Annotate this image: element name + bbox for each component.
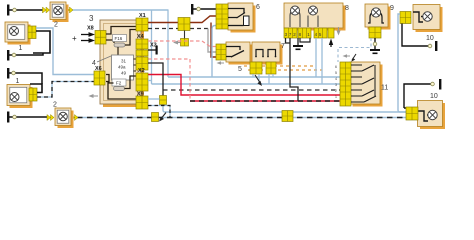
wire: blue dashed from lamp 9 connector to switch 11	[338, 38, 371, 62]
svg-text:9: 9	[390, 5, 394, 12]
ground for lamp 1 top	[7, 50, 43, 61]
svg-text:8: 8	[345, 5, 349, 12]
fuse F2	[112, 79, 126, 91]
svg-text:49a: 49a	[118, 65, 126, 70]
small connector on bottom bus with arrow	[152, 113, 167, 122]
label 3	[89, 14, 94, 23]
svg-text:2: 2	[53, 102, 57, 109]
wire: orange-white dashed y=70	[248, 69, 322, 71]
wire: cluster pin to ground	[293, 38, 303, 50]
wire: blue stubs from switch 7 connectors to buses	[253, 74, 273, 84]
wire: blue bus y=84 to switch 11	[152, 83, 341, 85]
connector pads of lamp 2 bottom	[47, 115, 78, 121]
svg-text:F2: F2	[116, 81, 122, 86]
ground for lamp 2 top-left	[7, 5, 44, 16]
wire: block internal X8 row1 to X1 row1	[106, 27, 136, 35]
wire: F2 to X2 row1	[125, 76, 137, 89]
wire: pink-red dashed from X4 row2 to switch 5	[148, 41, 216, 47]
mounting block 3	[100, 20, 144, 107]
label 10 (top)	[426, 35, 434, 42]
wire: lamp 10 top ground	[402, 24, 437, 52]
label 2 (bottom)	[53, 102, 57, 109]
connector X1	[136, 18, 148, 31]
wire: blue from lamp 10 top down right side	[398, 14, 406, 112]
connector of lamp 1 top	[28, 26, 36, 39]
connector X6	[94, 71, 105, 85]
wire: black dashed bus y=90	[163, 89, 340, 91]
gray arrow down at cluster right	[337, 27, 341, 36]
connector of lamp 1 bottom	[29, 88, 37, 101]
svg-text:X3: X3	[150, 43, 157, 49]
switch block 11	[340, 62, 383, 107]
stub and small connector under connector 178	[181, 31, 189, 47]
black arrow up into cluster pin	[329, 39, 333, 48]
label 1 (bottom)	[16, 78, 20, 85]
svg-text:X1: X1	[139, 13, 146, 19]
connector of lamp 10 top	[400, 12, 411, 24]
svg-text:31: 31	[121, 59, 127, 64]
svg-text:7: 7	[281, 43, 285, 50]
wire: F16 to X1 row2	[125, 30, 136, 46]
wire: X9 row2 dashed to bottom bus	[148, 106, 170, 118]
connectors below switch 7	[250, 62, 276, 74]
wire: block internal X6 row1 to F2	[106, 75, 114, 84]
rear lamp 10 bottom	[418, 101, 446, 130]
cluster pin row	[284, 28, 334, 38]
connector X3 and its ground	[136, 43, 158, 57]
lamp 1 (front turn signal, top left)	[5, 22, 31, 45]
hazard switch 6	[216, 3, 256, 33]
svg-text:11: 11	[381, 85, 388, 92]
wire: blue stub X2 row2 to riser	[148, 80, 152, 82]
svg-text:10: 10	[430, 93, 438, 100]
turn signal switch 7	[252, 42, 283, 65]
wire: blue riser x=168 down to blue bus y=77	[167, 10, 169, 77]
wire: blue taps from cluster pins 4,5 to buses	[316, 38, 322, 84]
svg-text:2: 2	[335, 89, 337, 93]
wire: blue bus y=112 from X9 chain to right rear lamp	[163, 104, 406, 112]
ground for lamp 2 bottom-left	[7, 112, 48, 123]
svg-text:1: 1	[16, 78, 20, 85]
svg-text:3: 3	[89, 14, 94, 23]
svg-text:4: 4	[335, 77, 337, 81]
wire: black hook of lamp 1 bottom	[30, 84, 42, 93]
label 2 (top)	[54, 22, 58, 29]
label 5	[238, 66, 242, 73]
connector of lamp 9	[369, 27, 381, 38]
gray arrow into switch 11 top	[343, 54, 351, 58]
relay 4 (turn/hazard flasher)	[112, 55, 137, 80]
black arrow through buses	[255, 75, 262, 86]
label 11	[381, 85, 388, 92]
wire: black/blue dashed from lamp 1 bottom to X6	[37, 82, 94, 98]
label X1	[139, 13, 146, 19]
connector X5 rows (relay outputs)	[136, 57, 148, 70]
wire: orange-white dashed y=66	[244, 65, 316, 67]
wire: bottom black/blue dashed bus y=117	[77, 117, 406, 119]
connector of lamp 10 bottom	[406, 107, 418, 120]
wire: X9 row1 blue stub to connector	[148, 98, 160, 100]
connector X4	[136, 39, 148, 49]
plus feed arrows into X8	[72, 32, 95, 43]
gray arrow left of small connector	[173, 41, 180, 45]
wire: red-black dashed bus y=103	[190, 100, 340, 102]
wire: cluster pin 2 black down to dashed bus	[286, 38, 299, 101]
instrument cluster 8	[284, 3, 346, 31]
svg-text:5: 5	[238, 66, 242, 73]
rear lamp 10 top	[413, 5, 443, 33]
label X9	[137, 92, 144, 98]
label X6	[95, 66, 102, 72]
svg-text:1: 1	[19, 45, 23, 52]
wire: F16 down to relay	[117, 47, 119, 55]
lamp 1 (front turn signal, bottom left)	[7, 85, 33, 109]
label X2	[138, 68, 145, 74]
svg-text:F16: F16	[115, 36, 123, 41]
gray arrow below X6	[89, 94, 99, 98]
connector on riser x=163	[160, 96, 167, 105]
connector X8	[95, 31, 106, 45]
repeater lamp 9	[365, 4, 391, 30]
label 4 with leader	[92, 56, 111, 67]
ground near hazard switch 6	[191, 4, 217, 15]
connector X9	[136, 96, 148, 109]
connector on bottom buses x=283	[282, 111, 293, 122]
svg-text:5: 5	[335, 71, 337, 75]
pin numbers of switch 11	[335, 65, 337, 99]
svg-text:3: 3	[335, 83, 337, 87]
wire: black hook of lamp 1 top	[33, 31, 50, 53]
gray arrow under switch 5 connector	[217, 61, 225, 65]
svg-text:2: 2	[54, 22, 58, 29]
wire: black from X5 row1 down riser x=163	[148, 63, 163, 96]
svg-text:6: 6	[335, 65, 337, 69]
label 6	[256, 4, 260, 11]
wire: blue from lamp 1 top to X6	[36, 28, 94, 75]
svg-text:X9: X9	[137, 92, 144, 98]
wire: red bus y=96 from X2	[148, 75, 340, 96]
wire: black dashed from X1 row2 to connector and gray down to switch 5	[148, 29, 216, 53]
black arrow into switch 11 column	[351, 54, 356, 62]
wire: black riser to bottom rear lamp and its ground	[404, 79, 441, 108]
svg-text:X2: X2	[138, 68, 145, 74]
wire: block internal X8 row2 to fuse F16	[106, 40, 114, 43]
wire: blue riser x=151 down to blue bus y=84	[151, 10, 153, 84]
label 10 (bottom)	[430, 93, 438, 100]
svg-text:1: 1	[335, 95, 337, 99]
connector pads of lamp 2 top	[43, 7, 74, 13]
svg-text:+: +	[72, 34, 77, 43]
wire: block internal X6 row2 down to X9	[106, 82, 136, 100]
label 7	[281, 43, 285, 50]
svg-text:X8: X8	[87, 26, 94, 32]
label 9	[390, 5, 394, 12]
svg-text:X6: X6	[95, 66, 102, 72]
connector on X1 wires	[178, 18, 190, 31]
svg-text:X4: X4	[137, 34, 145, 40]
label 1 (top)	[19, 45, 23, 52]
wire: lamp 9 to ground	[370, 38, 380, 54]
lamp 2 (side turn repeater, bottom left)	[55, 108, 74, 128]
wire: black U link under cluster pins	[300, 38, 310, 42]
wire: light blue up into switch 6	[212, 26, 217, 78]
wire: blue bus y=77 to switch 11	[168, 76, 340, 78]
ground for lamp 1 bottom	[7, 68, 42, 84]
wire: pink-red dashed from relay row to riser x=190	[148, 59, 190, 101]
wire: brown from X4 row1 to switch 5	[211, 23, 216, 58]
connector X2	[136, 73, 148, 91]
svg-text:6: 6	[256, 4, 260, 11]
svg-text:49: 49	[121, 71, 127, 76]
fuse F16	[113, 35, 127, 48]
lamp 2 (side turn repeater, top left)	[50, 2, 69, 22]
ignition switch 5	[216, 42, 253, 65]
label X8	[87, 26, 94, 32]
label 8	[345, 5, 349, 12]
wire: brown from X1 row1 to switch 6	[148, 16, 217, 23]
label X4	[137, 34, 145, 40]
svg-text:10: 10	[426, 35, 434, 42]
wire: light blue main from lamp 2 top going right	[69, 9, 169, 11]
